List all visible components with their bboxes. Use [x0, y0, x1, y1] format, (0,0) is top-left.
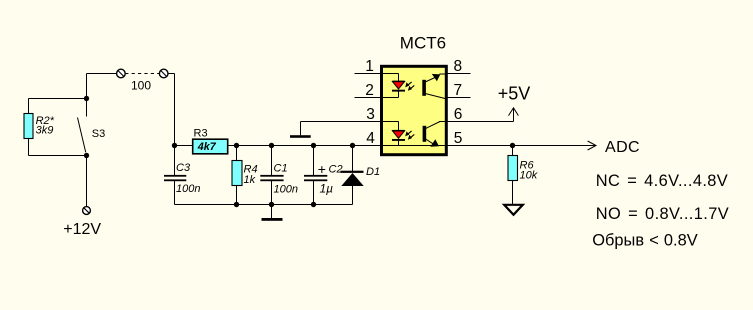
svg-text:+5V: +5V: [498, 84, 531, 104]
svg-text:+: +: [318, 161, 326, 177]
svg-text:2: 2: [365, 82, 374, 99]
svg-text:C3: C3: [176, 162, 191, 174]
svg-text:S3: S3: [92, 128, 105, 140]
svg-text:8: 8: [453, 58, 462, 75]
svg-text:4: 4: [366, 130, 375, 147]
svg-text:C1: C1: [274, 163, 288, 175]
svg-text:1: 1: [365, 58, 374, 75]
svg-text:Обрыв < 0.8V: Обрыв < 0.8V: [592, 231, 697, 249]
svg-text:NC = 4.6V...4.8V: NC = 4.6V...4.8V: [596, 172, 728, 190]
svg-text:100: 100: [131, 79, 151, 93]
svg-text:100n: 100n: [274, 184, 298, 196]
svg-text:+12V: +12V: [63, 221, 101, 238]
svg-text:C2: C2: [329, 163, 343, 175]
svg-text:1k: 1k: [244, 174, 256, 186]
svg-text:5: 5: [454, 130, 463, 147]
svg-text:D1: D1: [366, 166, 380, 178]
svg-text:4k7: 4k7: [197, 141, 217, 153]
svg-text:3k9: 3k9: [36, 125, 54, 137]
svg-text:1µ: 1µ: [320, 182, 334, 196]
svg-text:6: 6: [454, 106, 463, 123]
svg-text:10k: 10k: [520, 170, 538, 182]
svg-text:7: 7: [453, 82, 462, 99]
svg-text:ADC: ADC: [605, 139, 640, 156]
svg-text:MCT6: MCT6: [400, 34, 446, 53]
svg-text:3: 3: [366, 106, 375, 123]
svg-text:100n: 100n: [176, 183, 200, 195]
svg-text:R3: R3: [194, 128, 208, 140]
svg-text:NO = 0.8V...1.7V: NO = 0.8V...1.7V: [596, 205, 729, 223]
